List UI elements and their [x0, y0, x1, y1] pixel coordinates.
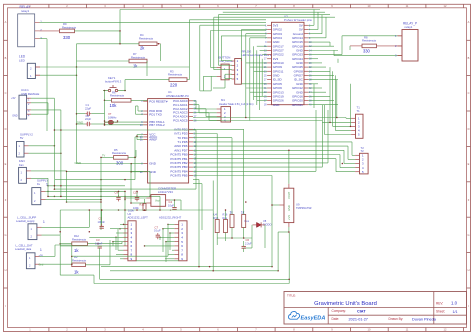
svg-text:Gravimetric Unit's Board: Gravimetric Unit's Board — [314, 301, 377, 307]
svg-text:Date:: Date: — [332, 317, 340, 321]
svg-text:1: 1 — [43, 220, 45, 224]
svg-text:ADS1232_RIGHT: ADS1232_RIGHT — [159, 215, 182, 219]
relay K1 RELAY — [18, 5, 43, 47]
resistor R16 — [223, 212, 228, 232]
svg-text:Drawn By:: Drawn By: — [389, 317, 404, 321]
svg-text:SUPPLY2: SUPPLY2 — [20, 132, 33, 136]
svg-text:Resistencia: Resistencia — [362, 39, 376, 43]
wires U3 right pins — [308, 24, 314, 26]
crystal X1 16MHz — [104, 112, 119, 126]
svg-text:R16: R16 — [223, 212, 228, 216]
wires ADS right pins — [168, 223, 174, 225]
svg-text:Fan: Fan — [19, 163, 24, 167]
wire SUPPLY2 pins — [29, 145, 55, 147]
wire crystal to xtal pins — [105, 121, 148, 123]
svg-text:10uF: 10uF — [168, 203, 174, 207]
capacitor C5 100nF — [98, 217, 106, 229]
svg-text:G: G — [4, 233, 6, 237]
wire L_CELL_DAT pins — [40, 255, 56, 257]
svg-text:Duvan Pineda: Duvan Pineda — [412, 317, 437, 321]
svg-text:Sheet:: Sheet: — [436, 310, 445, 314]
connector SUPPLY2 5V — [17, 132, 34, 157]
svg-text:TMP36GT9Z: TMP36GT9Z — [296, 206, 312, 210]
resistor R4 2k — [139, 33, 157, 50]
pushbutton BUTTON Cal_button — [217, 55, 234, 79]
wire LED line continues to R3 node — [77, 66, 190, 68]
svg-text:R13: R13 — [140, 202, 145, 206]
svg-text:EasyEDA: EasyEDA — [301, 315, 326, 321]
svg-text:Loadcell_supply: Loadcell_supply — [16, 219, 35, 223]
module U2 ADS1232_LEFT — [124, 208, 149, 261]
wires TMP36 — [288, 150, 290, 184]
svg-text:B: B — [468, 56, 470, 60]
svg-text:G: G — [467, 233, 469, 237]
svg-text:T2: T2 — [361, 146, 365, 150]
svg-text:22pF: 22pF — [85, 117, 91, 121]
svg-text:Pi Zero W header pins: Pi Zero W header pins — [284, 18, 312, 22]
svg-text:Fu: Fu — [37, 182, 41, 186]
svg-text:button4*6*6.3: button4*6*6.3 — [105, 80, 122, 84]
resistor R13 100k — [133, 202, 146, 210]
svg-text:1/1: 1/1 — [453, 310, 458, 314]
frame row ticks left — [4, 39, 8, 41]
wire USB D- — [31, 102, 48, 104]
header M1 Header Male 2.54_1x4 — [217, 98, 254, 122]
svg-text:Resistencia: Resistencia — [168, 73, 182, 77]
svg-text:R4: R4 — [140, 33, 144, 37]
svg-text:R7: R7 — [133, 52, 137, 56]
svg-text:M1: M1 — [221, 98, 225, 102]
capacitor C6 2.2uF — [242, 238, 253, 248]
svg-text:LD1117V33: LD1117V33 — [158, 190, 173, 194]
wire FAN pins — [31, 170, 67, 172]
connector L_CELL_DAT Loadcell_data — [15, 244, 44, 269]
bus lower lines — [193, 162, 328, 164]
svg-text:+: + — [170, 209, 172, 213]
svg-text:T1: T1 — [357, 105, 361, 109]
svg-text:PB7 XTAL2: PB7 XTAL2 — [149, 123, 165, 127]
wire USB GND — [31, 113, 48, 115]
wire R5 right — [128, 156, 136, 158]
connector SUPPLY Fu — [32, 178, 48, 204]
wire R4 right to node — [157, 43, 161, 45]
relay K2 RELAY_P — [395, 22, 418, 61]
wire node x76 to R4 line — [77, 43, 121, 45]
wire R2 — [85, 264, 110, 266]
supply mesh junction dots — [47, 185, 49, 187]
bottom long bus wires — [101, 266, 272, 268]
wire caps — [101, 210, 103, 224]
svg-text:Gnd: Gnd — [39, 263, 44, 266]
resistor R8 330 — [362, 35, 377, 53]
svg-text:PC6 RESET#: PC6 RESET# — [149, 99, 168, 103]
IC U3 Pi Zero W header pins — [264, 15, 312, 107]
svg-text:1k: 1k — [241, 210, 245, 214]
svg-text:U4: U4 — [214, 212, 218, 216]
wire relay pin2 through R9 — [40, 30, 60, 32]
wire USB +5V — [31, 97, 54, 99]
svg-text:330: 330 — [63, 35, 71, 40]
upper-left distribution lines — [189, 19, 266, 21]
verticals from U3 right side into T1 — [329, 67, 331, 122]
wire mesh around converter — [60, 209, 213, 211]
svg-text:100nF: 100nF — [95, 241, 103, 245]
svg-text:100k: 100k — [128, 208, 134, 212]
svg-text:KEY1: KEY1 — [108, 76, 116, 80]
wires RR_DG header pins — [221, 60, 232, 62]
connector FAN Fan — [19, 159, 31, 183]
svg-text:GND: GND — [149, 162, 157, 166]
supply rail mesh — [54, 188, 196, 190]
svg-text:16MHz: 16MHz — [108, 115, 117, 119]
svg-text:Resistencia: Resistencia — [72, 258, 86, 262]
svg-text:100nF: 100nF — [98, 220, 106, 224]
svg-text:AREF: AREF — [149, 138, 157, 142]
wire C1 — [77, 113, 86, 115]
capacitor C8 22pF — [85, 114, 91, 126]
svg-text:330: 330 — [363, 49, 371, 54]
svg-text:D: D — [468, 127, 470, 131]
temperature sensor U9 TMP36GT9Z — [280, 184, 312, 227]
capacitor C4 10uF — [168, 200, 177, 212]
wire R7 connects down — [146, 61, 148, 76]
svg-text:H: H — [5, 268, 7, 272]
right loop verticals — [313, 10, 315, 26]
svg-text:Loadcell_data: Loadcell_data — [15, 247, 32, 251]
svg-text:Header Male 2.54_1x4 (2.0m): Header Male 2.54_1x4 (2.0m) — [219, 102, 254, 106]
svg-text:PD1 TXD: PD1 TXD — [149, 112, 162, 116]
svg-text:Resistencia: Resistencia — [72, 237, 86, 241]
wire vertical LED node — [76, 67, 78, 164]
title block — [284, 292, 467, 325]
resistor R7 1k — [129, 52, 147, 68]
svg-text:GPIO21: GPIO21 — [292, 103, 303, 107]
wire R5 left node — [101, 156, 114, 158]
svg-text:relay1: relay1 — [405, 25, 413, 29]
svg-text:Company:: Company: — [332, 309, 347, 313]
voltage regulator U6 CONVERTER LD1117V33 — [147, 186, 177, 206]
wires diode resistors mesh — [231, 228, 233, 239]
svg-text:L_CELL_DAT: L_CELL_DAT — [16, 244, 33, 248]
wire R7 left — [77, 60, 130, 62]
resistor R9 330 — [60, 22, 77, 40]
diode V8 DIODO — [253, 219, 272, 227]
svg-text:T1: T1 — [357, 109, 361, 113]
svg-text:GND: GND — [149, 170, 157, 174]
EasyEDA logo — [289, 311, 326, 321]
svg-text:10k: 10k — [110, 103, 118, 108]
wire RXD TXD — [138, 110, 143, 112]
svg-text:LED: LED — [19, 58, 26, 62]
wire C4 — [174, 200, 176, 208]
svg-text:relay1: relay1 — [21, 9, 30, 13]
svg-text:E: E — [5, 162, 7, 166]
svg-text:C: C — [468, 91, 470, 95]
svg-text:CIAT: CIAT — [357, 309, 366, 313]
svg-text:B: B — [5, 56, 7, 60]
resistor R6 10k — [110, 90, 132, 108]
wires R15 R16 — [225, 210, 227, 220]
svg-text:100k: 100k — [133, 206, 139, 210]
svg-text:1: 1 — [40, 248, 42, 252]
header P2 LED Green header Pins 2 — [232, 50, 272, 85]
wire VCC rail to U1 — [137, 134, 143, 136]
svg-text:VOUT: VOUT — [287, 191, 291, 199]
wire R3 left from KEY1 — [125, 79, 169, 81]
wire R6 right to U1 reset — [131, 99, 148, 101]
svg-text:L_CELL_SUPP: L_CELL_SUPP — [17, 216, 36, 220]
svg-text:C6: C6 — [246, 238, 250, 242]
svg-text:1.0: 1.0 — [451, 301, 458, 306]
wire C8 — [77, 123, 86, 125]
wires C6 — [243, 241, 245, 246]
frame column ticks bottom — [48, 328, 50, 332]
svg-text:2021-01-27: 2021-01-27 — [349, 317, 368, 321]
resistor R12 1k — [72, 234, 88, 253]
capacitor C1 22pF — [85, 103, 91, 116]
svg-text:FAN: FAN — [19, 159, 25, 163]
wire GND pins U1 — [131, 163, 143, 165]
resistor R15 — [214, 212, 220, 232]
svg-text:GND: GND — [287, 205, 291, 211]
resistor R2 1k — [72, 255, 87, 274]
wire R12 — [60, 243, 72, 245]
svg-text:H: H — [468, 268, 470, 272]
svg-text:+5V: +5V — [39, 254, 44, 257]
frame column ticks top — [48, 4, 50, 8]
connector U10.1 USB FEMALE — [11, 88, 39, 119]
svg-text:Resistencia: Resistencia — [110, 94, 124, 98]
IC U1 ATMEGA328P-PU — [140, 90, 197, 183]
resistor R3 220 — [168, 69, 187, 87]
svg-text:Res: Res — [245, 220, 250, 223]
module U7 ADS1232_RIGHT — [159, 215, 187, 261]
svg-text:300: 300 — [116, 161, 124, 166]
wire relay pin1 to U3 3V3 — [40, 21, 267, 23]
wire USB D+ — [31, 109, 61, 111]
wire L_CELL_SUPP pins — [42, 226, 90, 228]
wires to RELAY_P — [342, 35, 402, 37]
svg-text:Resistencia: Resistencia — [112, 151, 126, 155]
wire LED pin1 — [40, 74, 77, 76]
svg-text:A: A — [468, 20, 470, 24]
pushbutton KEY1 button4*6*6.3 — [103, 76, 126, 92]
wire SUPPLY pins — [46, 190, 126, 192]
wire supply2 vertical — [53, 130, 55, 189]
wire GND rail left — [77, 163, 132, 165]
svg-text:2.2uF: 2.2uF — [245, 242, 252, 246]
wires ADS left pins — [120, 223, 124, 225]
svg-text:1: 1 — [46, 183, 48, 187]
svg-text:+VS: +VS — [287, 215, 291, 220]
capacitor C7 0.1uF — [154, 225, 161, 239]
svg-text:1k: 1k — [230, 210, 234, 214]
wire KEY1 to R6 — [104, 91, 106, 125]
svg-text:5V: 5V — [20, 136, 23, 140]
wires BUTTON — [211, 66, 217, 68]
routing channel verticals — [198, 180, 200, 267]
junction dots ADS area — [115, 237, 117, 239]
LED LED1 — [19, 55, 40, 79]
svg-text:C: C — [5, 91, 7, 95]
wire LED pin2 — [40, 66, 77, 68]
svg-text:R9: R9 — [63, 22, 67, 26]
svg-text:22pF: 22pF — [85, 106, 91, 110]
resistor R5 300 — [112, 148, 128, 166]
wire R9 right — [75, 30, 121, 32]
connector L_CELL_SUPP Loadcell_supply — [16, 216, 45, 240]
wire regulator — [125, 197, 147, 199]
svg-text:0.1uF: 0.1uF — [154, 229, 161, 233]
horizontal bus above U3 — [120, 9, 320, 11]
svg-text:Vout: Vout — [155, 199, 160, 202]
frame row ticks right — [467, 39, 471, 41]
capacitor C10 — [133, 191, 139, 202]
wires M1 pins — [196, 108, 217, 110]
capacitor C3 100nF — [95, 238, 103, 248]
svg-text:ADS1232_LEFT: ADS1232_LEFT — [128, 215, 149, 219]
vertical bus left of U3 — [241, 30, 243, 62]
svg-text:ATMEGA328P-PU: ATMEGA328P-PU — [166, 94, 189, 98]
svg-text:GND: GND — [273, 103, 281, 107]
svg-text:U9: U9 — [296, 202, 300, 206]
connector T1 — [351, 105, 363, 138]
capacitor C9 — [115, 191, 121, 202]
wires U3 left pins — [242, 28, 268, 30]
resistor R14 1k — [230, 210, 235, 227]
wire R4 left — [120, 43, 139, 45]
svg-text:PCINT5 PB5: PCINT5 PB5 — [170, 174, 188, 178]
connector T2 — [355, 146, 368, 174]
svg-text:PC5 ADC5: PC5 ADC5 — [173, 119, 188, 123]
wire R3 right — [187, 79, 189, 81]
bus wires U1 to T1 T2 connectors — [193, 117, 346, 119]
resistor R11 Res — [241, 210, 250, 227]
svg-text:A: A — [5, 20, 7, 24]
svg-text:GND: GND — [12, 115, 18, 118]
svg-text:REV:: REV: — [436, 301, 443, 305]
svg-text:Resistencia: Resistencia — [139, 37, 153, 41]
svg-text:TITLE:: TITLE: — [287, 294, 296, 298]
INT0 INT1 T0 wires down to resistor cluster — [193, 128, 244, 130]
svg-text:+5V: +5V — [11, 97, 16, 100]
svg-text:220: 220 — [170, 83, 178, 88]
svg-text:E: E — [468, 162, 470, 166]
wire relay pin3 — [40, 38, 48, 40]
svg-text:GND: GND — [77, 121, 83, 125]
svg-text:TV: TV — [102, 154, 106, 157]
svg-text:D: D — [5, 127, 7, 131]
svg-text:V8: V8 — [263, 219, 267, 223]
